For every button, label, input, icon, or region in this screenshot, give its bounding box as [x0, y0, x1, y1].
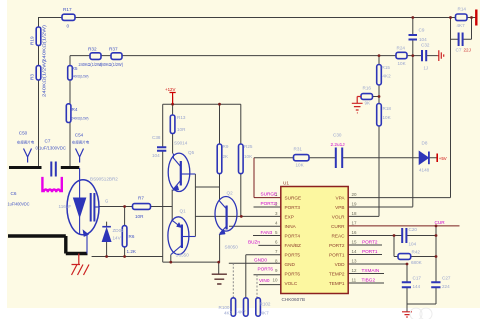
svg-text:R6: R6: [129, 234, 135, 239]
svg-text:1.2K: 1.2K: [127, 249, 137, 254]
svg-text:BUZn: BUZn: [248, 239, 260, 244]
svg-text:4K7: 4K7: [224, 311, 233, 316]
svg-text:GND: GND: [285, 262, 296, 267]
svg-text:240KΩ(1/2W): 240KΩ(1/2W): [100, 62, 124, 67]
svg-text:Q1: Q1: [180, 209, 187, 214]
svg-text:CUR: CUR: [435, 220, 446, 225]
svg-text:240KΩ(1/2W): 240KΩ(1/2W): [42, 24, 47, 62]
svg-text:18: 18: [352, 211, 358, 216]
svg-text:10K: 10K: [296, 163, 305, 168]
svg-text:Q2: Q2: [227, 191, 234, 196]
svg-text:CURR: CURR: [331, 224, 345, 229]
svg-text:TXMAIN: TXMAIN: [362, 268, 380, 273]
svg-text:104: 104: [419, 37, 427, 42]
svg-text:R16: R16: [363, 86, 372, 91]
svg-text:TEMP1: TEMP1: [329, 281, 345, 286]
svg-text:17: 17: [352, 221, 358, 226]
svg-text:ZD01: ZD01: [113, 228, 125, 233]
svg-text:19: 19: [352, 202, 358, 207]
svg-text:Q5: Q5: [188, 150, 195, 155]
svg-text:REAC: REAC: [331, 233, 345, 238]
svg-text:12: 12: [352, 268, 358, 273]
svg-text:EXP: EXP: [285, 214, 294, 219]
svg-text:BS90512BR2: BS90512BR2: [90, 177, 118, 182]
svg-text:4K2: 4K2: [383, 74, 392, 79]
svg-text:VOLC: VOLC: [285, 281, 298, 286]
svg-text:R37: R37: [109, 47, 118, 52]
svg-text:R3: R3: [30, 74, 35, 80]
svg-text:C20: C20: [409, 227, 418, 232]
svg-text:4K7: 4K7: [238, 310, 247, 315]
svg-text:C7: C7: [45, 139, 51, 144]
svg-text:R4: R4: [72, 107, 78, 112]
svg-text:FAN/BZ: FAN/BZ: [285, 243, 302, 248]
svg-text:VDD: VDD: [335, 262, 346, 267]
svg-text:4K7: 4K7: [457, 23, 466, 28]
svg-text:R14: R14: [458, 7, 467, 12]
svg-text:240KΩ(1/2W): 240KΩ(1/2W): [72, 116, 89, 121]
svg-text:+12V: +12V: [165, 87, 175, 92]
svg-text:20: 20: [352, 192, 358, 197]
svg-text:R42: R42: [412, 250, 421, 255]
svg-text:R32: R32: [88, 47, 97, 52]
svg-text:安规瓷片电: 安规瓷片电: [17, 140, 35, 145]
svg-text:10K: 10K: [398, 61, 407, 66]
svg-text:1J: 1J: [424, 66, 429, 71]
svg-text:22J: 22J: [464, 48, 471, 53]
svg-text:R31: R31: [294, 147, 303, 152]
svg-text:R9: R9: [223, 144, 229, 149]
svg-text:U1: U1: [283, 181, 289, 186]
svg-text:C38: C38: [152, 135, 161, 140]
svg-text:10K: 10K: [244, 154, 253, 159]
svg-text:PORT4: PORT4: [285, 233, 301, 238]
svg-text:PORT1: PORT1: [362, 249, 378, 254]
svg-text:PORT3: PORT3: [285, 205, 301, 210]
svg-text:C17: C17: [413, 276, 422, 281]
svg-text:PORT2: PORT2: [362, 239, 378, 244]
svg-text:116uF: 116uF: [59, 204, 72, 209]
svg-text:104: 104: [152, 153, 160, 158]
svg-text:R24: R24: [397, 46, 406, 51]
svg-text:C32: C32: [421, 43, 430, 48]
svg-text:10R: 10R: [135, 214, 144, 219]
svg-text:FAN3: FAN3: [261, 230, 273, 235]
svg-text:R17: R17: [63, 7, 72, 12]
svg-text:安规瓷片电: 安规瓷片电: [72, 140, 90, 145]
svg-text:TEMP2: TEMP2: [329, 271, 345, 276]
svg-text:R13: R13: [177, 115, 186, 120]
svg-text:C54: C54: [75, 132, 84, 137]
svg-text:13: 13: [352, 259, 358, 264]
svg-text:C30: C30: [333, 133, 342, 138]
svg-text:R19: R19: [30, 36, 35, 45]
svg-text:GND0: GND0: [254, 258, 267, 263]
svg-text:D8: D8: [422, 141, 428, 146]
svg-text:PORT6: PORT6: [258, 267, 274, 272]
svg-text:VOLR: VOLR: [332, 214, 345, 219]
svg-text:R5: R5: [72, 66, 78, 71]
svg-text:R15: R15: [382, 65, 391, 70]
svg-text:680K: 680K: [411, 260, 423, 265]
svg-text:C6: C6: [11, 191, 17, 196]
svg-text:PORT5: PORT5: [285, 252, 301, 257]
svg-text:VIN0: VIN0: [259, 278, 270, 283]
svg-text:9K: 9K: [365, 101, 372, 106]
svg-text:240KΩ(1/2W): 240KΩ(1/2W): [72, 74, 89, 79]
svg-text:144: 144: [413, 284, 421, 289]
svg-text:+5V: +5V: [439, 156, 447, 161]
svg-text:4K7: 4K7: [261, 311, 270, 316]
svg-text:R18: R18: [383, 106, 392, 111]
svg-text:S8550: S8550: [176, 253, 190, 258]
svg-text:R25: R25: [244, 144, 253, 149]
svg-text:PORT1: PORT1: [329, 252, 345, 257]
svg-text:1uF/400VDC: 1uF/400VDC: [8, 202, 30, 207]
svg-text:11: 11: [352, 278, 357, 283]
svg-text:S9014: S9014: [174, 141, 188, 146]
svg-text:15: 15: [352, 240, 358, 245]
svg-text:2.2u1J: 2.2u1J: [331, 142, 345, 147]
svg-text:C7: C7: [456, 48, 462, 53]
svg-text:VPA: VPA: [335, 196, 345, 201]
svg-text:10: 10: [272, 278, 278, 283]
svg-text:16: 16: [352, 230, 358, 235]
svg-text:C9: C9: [419, 28, 425, 33]
svg-text:240KΩ(1/2W): 240KΩ(1/2W): [42, 59, 47, 97]
svg-text:R102: R102: [260, 302, 271, 307]
svg-text:PORT6: PORT6: [285, 271, 301, 276]
svg-text:14: 14: [352, 249, 358, 254]
svg-text:R7: R7: [138, 196, 144, 201]
svg-text:0: 0: [67, 24, 70, 29]
svg-text:VPB: VPB: [335, 205, 344, 210]
svg-text:C50: C50: [19, 130, 28, 135]
svg-text:2K: 2K: [223, 154, 230, 159]
svg-text:CHK0607B: CHK0607B: [282, 297, 305, 302]
svg-text:10R: 10R: [177, 127, 186, 132]
svg-text:14V: 14V: [113, 236, 122, 241]
svg-text:C27: C27: [442, 276, 451, 281]
svg-text:224: 224: [442, 284, 450, 289]
svg-text:104: 104: [409, 242, 417, 247]
svg-text:PORT2: PORT2: [329, 243, 345, 248]
svg-text:4148: 4148: [419, 168, 430, 173]
svg-text:SURGE: SURGE: [285, 196, 302, 201]
svg-text:0.1uF/1300VDC: 0.1uF/1300VDC: [36, 145, 67, 150]
svg-text:R100: R100: [219, 305, 230, 310]
svg-text:10K: 10K: [383, 115, 392, 120]
svg-text:TIBG2: TIBG2: [362, 278, 376, 283]
svg-text:S8050: S8050: [225, 245, 239, 250]
svg-text:INNA: INNA: [285, 224, 297, 229]
